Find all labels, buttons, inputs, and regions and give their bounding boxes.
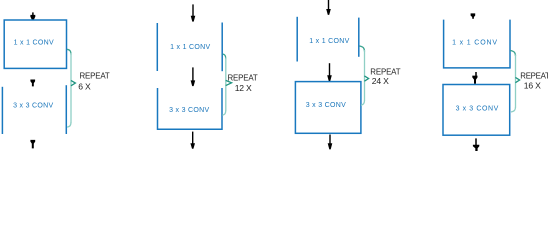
svg-text:6 X: 6 X: [78, 82, 91, 92]
svg-text:1 x 1 CONV: 1 x 1 CONV: [14, 39, 54, 46]
svg-text:REPEAT: REPEAT: [520, 71, 548, 80]
svg-text:12 X: 12 X: [235, 83, 252, 93]
svg-text:3 x 3 CONV: 3 x 3 CONV: [169, 107, 209, 114]
svg-text:3 x 3 CONV: 3 x 3 CONV: [13, 103, 53, 110]
svg-text:16 X: 16 X: [524, 81, 541, 91]
svg-text:1 x 1 CONV: 1 x 1 CONV: [452, 40, 498, 47]
svg-text:3 x 3 CONV: 3 x 3 CONV: [456, 105, 499, 112]
svg-text:3 x 3 CONV: 3 x 3 CONV: [306, 102, 346, 109]
svg-text:1 x 1 CONV: 1 x 1 CONV: [170, 44, 210, 51]
svg-text:REPEAT: REPEAT: [80, 71, 110, 80]
svg-text:REPEAT: REPEAT: [228, 74, 258, 83]
svg-text:1 x 1 CONV: 1 x 1 CONV: [309, 38, 349, 45]
svg-text:24 X: 24 X: [372, 76, 389, 86]
